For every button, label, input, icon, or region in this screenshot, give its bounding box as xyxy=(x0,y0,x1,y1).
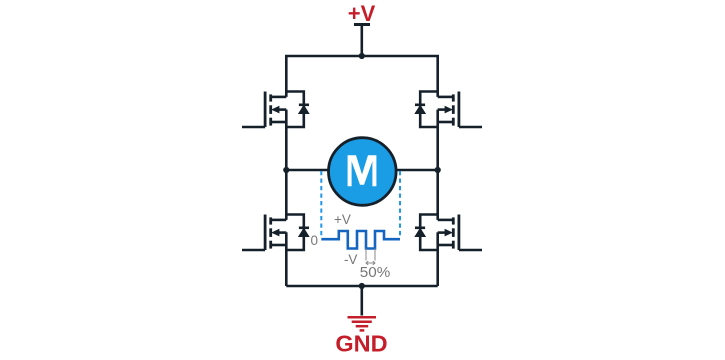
wire left high-side source to midpoint xyxy=(285,110,288,170)
junction dot right midpoint xyxy=(435,167,441,173)
wire top rail xyxy=(286,56,437,97)
svg-text:50%: 50% xyxy=(360,264,390,281)
svg-text:+V: +V xyxy=(348,1,376,26)
wire midpoint to right low-side drain xyxy=(436,170,439,220)
ground symbol xyxy=(348,317,377,330)
motor M1 xyxy=(329,138,397,206)
svg-text:+V: +V xyxy=(334,212,351,227)
probe dashed line right motor terminal xyxy=(399,171,401,238)
wire bottom rail to ground xyxy=(360,286,363,316)
svg-text:0: 0 xyxy=(310,233,318,248)
wire midpoint to left low-side drain xyxy=(285,170,288,220)
transistor Q3 low-side left with body diode xyxy=(242,215,309,251)
junction dot top rail xyxy=(359,53,365,59)
junction dot bottom rail xyxy=(359,283,365,289)
wire +V terminal to top rail xyxy=(360,25,363,57)
PWM waveform xyxy=(321,231,400,249)
wire bridge output rail to motor xyxy=(286,169,437,172)
transistor Q4 low-side right with body diode xyxy=(415,215,482,251)
probe dashed line left motor terminal xyxy=(320,171,322,238)
transistor Q2 high-side right with body diode xyxy=(415,92,482,128)
supply +V terminal bar xyxy=(354,23,370,26)
duty cycle measure bracket xyxy=(366,249,375,265)
svg-text:-V: -V xyxy=(344,252,358,267)
wire right low-side source to bottom rail xyxy=(436,232,439,286)
wire bottom rail xyxy=(286,285,437,288)
junction dot left midpoint xyxy=(283,167,289,173)
svg-text:GND: GND xyxy=(335,331,387,357)
transistor Q1 high-side left with body diode xyxy=(242,92,309,128)
wire left low-side source to bottom rail xyxy=(285,232,288,286)
wire right high-side source to midpoint xyxy=(436,110,439,170)
